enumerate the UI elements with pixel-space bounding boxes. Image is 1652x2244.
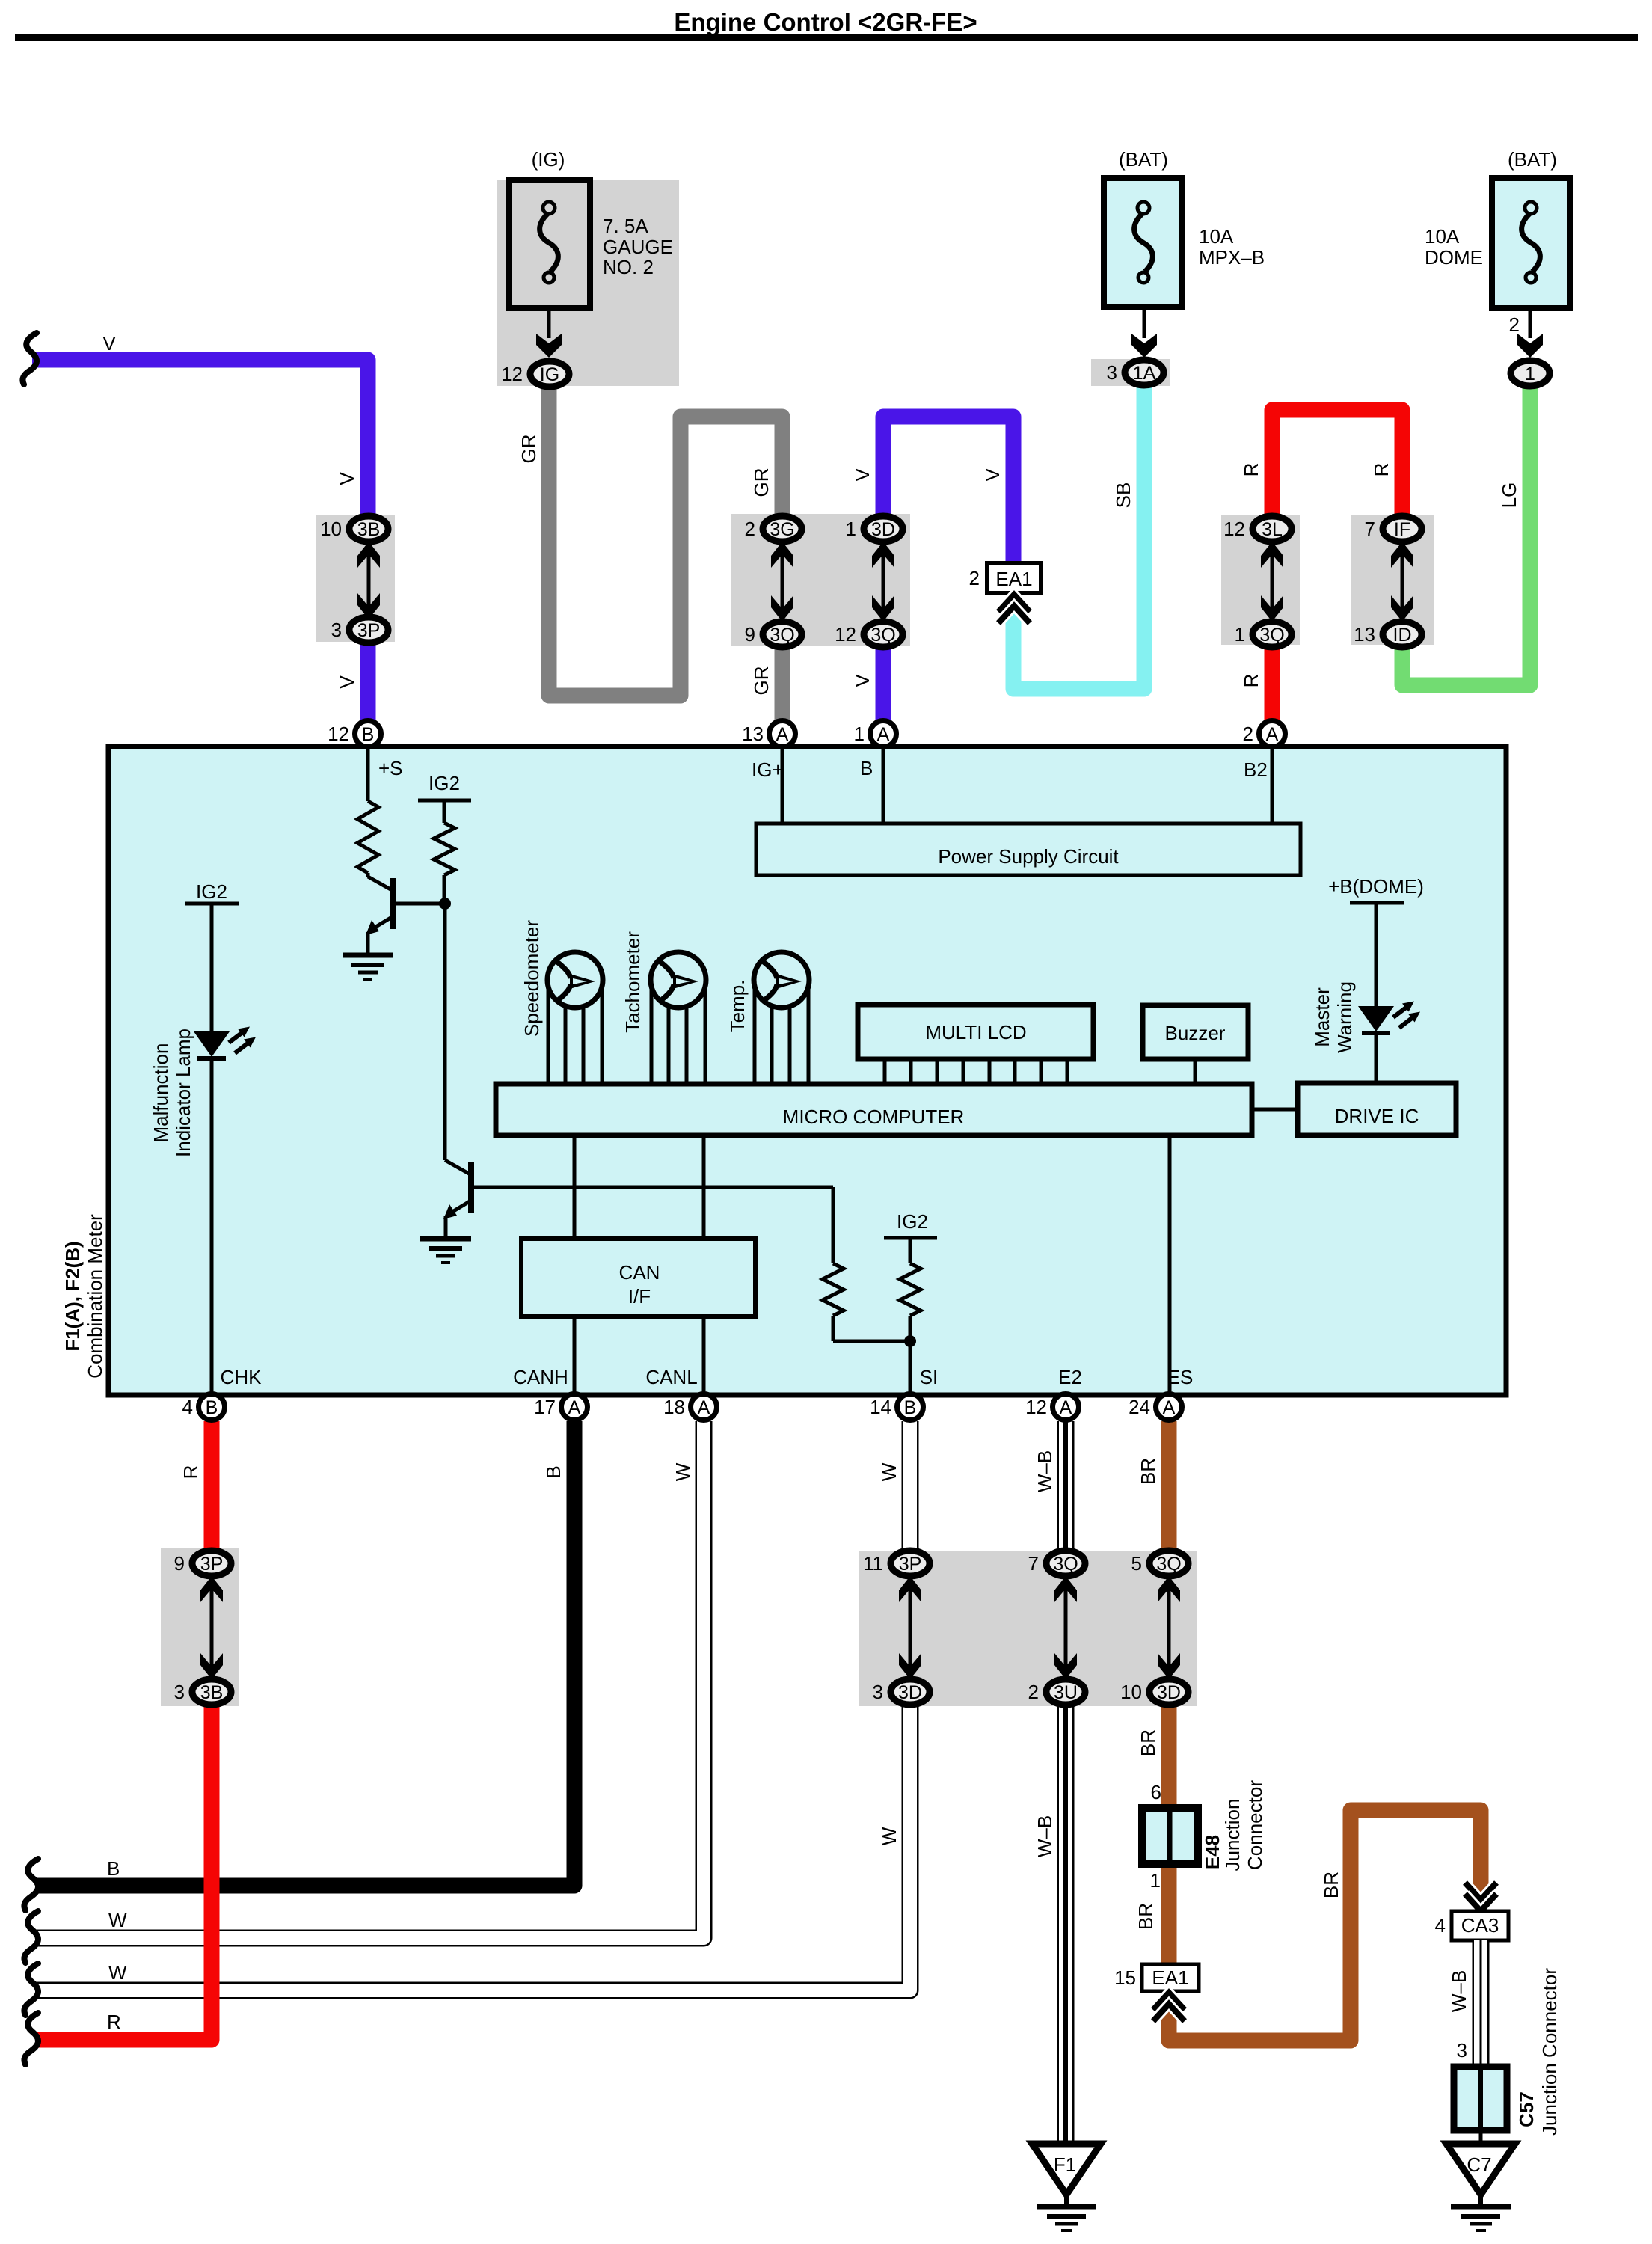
svg-text:24: 24 bbox=[1129, 1396, 1150, 1418]
wire BR from meter pin 24A ES via 3Q/3D to E48 and EA1 bbox=[1169, 1421, 1481, 2041]
gauge temp bbox=[726, 952, 809, 1084]
svg-text:MULTI LCD: MULTI LCD bbox=[925, 1021, 1026, 1043]
svg-text:NO. 2: NO. 2 bbox=[603, 256, 654, 278]
wire W-B from CA3 to C57 bbox=[1473, 1940, 1490, 2067]
power supply circuit box bbox=[756, 824, 1301, 875]
svg-text:B: B bbox=[107, 1857, 120, 1880]
svg-text:Malfunction: Malfunction bbox=[150, 1043, 172, 1143]
svg-text:Warning: Warning bbox=[1333, 981, 1356, 1053]
gauge tachometer bbox=[621, 931, 706, 1084]
ground C7 bbox=[1446, 2144, 1515, 2231]
svg-text:GAUGE: GAUGE bbox=[603, 236, 673, 258]
svg-text:GR: GR bbox=[518, 435, 540, 464]
svg-text:10A: 10A bbox=[1199, 225, 1234, 248]
meter pin 13 A (IG+) bbox=[742, 721, 795, 747]
connector 3P pin 9 bbox=[174, 1551, 231, 1576]
wire SB from fuse MPX-B 1A to EA1 bbox=[1013, 383, 1144, 689]
buzzer box bbox=[1143, 1005, 1248, 1084]
connector 3Q pin 9 bbox=[745, 622, 802, 647]
svg-text:17: 17 bbox=[534, 1396, 556, 1418]
connector 3B pin 10 bbox=[320, 516, 388, 542]
svg-text:12: 12 bbox=[835, 623, 856, 646]
connector pair IF/ID gray background bbox=[1351, 515, 1434, 645]
net +B(DOME) rail bbox=[1328, 875, 1424, 1006]
resistor R-si1 bbox=[823, 1263, 844, 1316]
meter pin 1 A (B) bbox=[854, 721, 897, 747]
connector 1A pin 3 bbox=[1107, 360, 1164, 385]
wires CAN I/F to micro computer bbox=[574, 1135, 704, 1239]
terminal IG pin 12 bbox=[501, 361, 569, 387]
svg-text:IG2: IG2 bbox=[196, 880, 227, 903]
title Engine Control <2GR-FE> bbox=[674, 8, 977, 36]
svg-text:A: A bbox=[1163, 1397, 1176, 1418]
wire B from meter pin 17A CANH to harness break bbox=[36, 1421, 574, 1886]
svg-text:A: A bbox=[568, 1397, 581, 1418]
junction arrow 3Q-3U bbox=[1054, 1576, 1077, 1679]
node junction dot base Q1 bbox=[439, 898, 451, 910]
connector CA3 pin 4 bbox=[1435, 1911, 1508, 1940]
arrow from fuse MPX-B to 1A bbox=[1131, 307, 1157, 358]
svg-text:I/F: I/F bbox=[628, 1285, 651, 1308]
svg-text:EA1: EA1 bbox=[995, 568, 1032, 590]
combination meter box F1(A),F2(B) bbox=[108, 747, 1506, 1395]
svg-text:13: 13 bbox=[742, 723, 764, 745]
pin name labels bottom bbox=[221, 1366, 1194, 1388]
svg-text:W: W bbox=[878, 1827, 900, 1845]
svg-text:4: 4 bbox=[182, 1396, 193, 1418]
junction arrow 3Q-3D bbox=[1158, 1576, 1180, 1679]
connector EA1 pin 15 (bottom) bbox=[1114, 1964, 1199, 1991]
svg-text:W: W bbox=[878, 1462, 900, 1481]
connector 3Q pin 12 bbox=[835, 622, 903, 647]
net IG2 rail MIL bbox=[185, 880, 239, 1031]
meter pin 17 A CANH bbox=[534, 1394, 587, 1420]
svg-text:BR: BR bbox=[1137, 1458, 1159, 1485]
svg-text:W–B: W–B bbox=[1448, 1970, 1470, 2012]
connector 3Q pin 1 bbox=[1235, 622, 1292, 647]
wire R from 3L to IF bbox=[1272, 410, 1402, 516]
wires pins to power supply circuit bbox=[782, 748, 1272, 824]
svg-text:3L: 3L bbox=[1262, 519, 1283, 540]
ground (internal, under Q2) bbox=[420, 1239, 471, 1263]
gauge speedometer bbox=[521, 920, 603, 1084]
svg-text:3G: 3G bbox=[770, 519, 794, 540]
svg-text:IF: IF bbox=[1394, 519, 1410, 540]
svg-text:V: V bbox=[981, 468, 1004, 482]
svg-text:B: B bbox=[860, 757, 873, 779]
svg-text:1: 1 bbox=[846, 518, 856, 540]
junction arrow 3D-3Q bbox=[872, 542, 894, 622]
svg-text:MPX–B: MPX–B bbox=[1199, 246, 1265, 269]
meter pin 4 B CHK bbox=[182, 1394, 225, 1420]
svg-text:ES: ES bbox=[1167, 1366, 1194, 1388]
svg-text:3Q: 3Q bbox=[870, 625, 895, 646]
ground (internal, under Q1) bbox=[343, 955, 393, 979]
svg-text:(IG): (IG) bbox=[532, 148, 565, 171]
svg-text:7. 5A: 7. 5A bbox=[603, 215, 648, 237]
svg-text:V: V bbox=[336, 472, 358, 485]
svg-text:R: R bbox=[107, 2011, 121, 2033]
svg-text:5: 5 bbox=[1131, 1552, 1142, 1575]
svg-text:LG: LG bbox=[1498, 482, 1520, 509]
svg-text:A: A bbox=[776, 724, 789, 745]
arrow from fuse GAUGE NO.2 to IG terminal bbox=[536, 308, 562, 358]
svg-text:V: V bbox=[851, 674, 873, 687]
svg-text:3: 3 bbox=[873, 1681, 883, 1703]
svg-text:3B: 3B bbox=[200, 1682, 224, 1703]
svg-text:W: W bbox=[108, 1961, 127, 1984]
svg-text:CANL: CANL bbox=[645, 1366, 697, 1388]
svg-text:3D: 3D bbox=[898, 1682, 922, 1703]
svg-text:BR: BR bbox=[1320, 1871, 1342, 1898]
svg-text:MICRO COMPUTER: MICRO COMPUTER bbox=[783, 1106, 965, 1128]
junction connector E48 bbox=[1142, 1780, 1266, 1892]
svg-text:R: R bbox=[179, 1465, 202, 1480]
fuse 7.5A GAUGE NO.2 (IG) bbox=[509, 148, 673, 308]
svg-text:14: 14 bbox=[870, 1396, 891, 1418]
wire master warning LED to drive IC bbox=[1375, 1033, 1378, 1083]
connector 3D pin 1 bbox=[846, 516, 903, 542]
svg-text:W–B: W–B bbox=[1034, 1450, 1056, 1492]
wire R from 3Q to meter pin 2A bbox=[1265, 643, 1280, 720]
svg-text:C7: C7 bbox=[1467, 2153, 1491, 2176]
wire W from meter pin 18A CANL to harness break bbox=[36, 1421, 704, 1938]
ground F1 bbox=[1032, 2144, 1101, 2231]
svg-text:1A: 1A bbox=[1133, 363, 1156, 384]
svg-text:12: 12 bbox=[328, 723, 349, 745]
svg-text:B: B bbox=[206, 1397, 218, 1418]
svg-text:A: A bbox=[1060, 1397, 1072, 1418]
svg-text:Engine Control <2GR-FE>: Engine Control <2GR-FE> bbox=[674, 8, 977, 36]
fuse 10A DOME (BAT) bbox=[1425, 148, 1570, 308]
svg-text:3: 3 bbox=[1107, 361, 1117, 384]
svg-text:IG: IG bbox=[540, 364, 559, 385]
svg-text:12: 12 bbox=[501, 363, 523, 385]
svg-text:3Q: 3Q bbox=[1156, 1554, 1181, 1575]
transistor Q2 bbox=[443, 1160, 833, 1239]
svg-text:R: R bbox=[1240, 463, 1262, 477]
wire C57 to ground C7 bbox=[1479, 2130, 1483, 2145]
svg-text:3B: 3B bbox=[357, 519, 381, 540]
svg-text:2: 2 bbox=[745, 518, 755, 540]
svg-text:3: 3 bbox=[331, 619, 342, 641]
svg-text:4: 4 bbox=[1435, 1914, 1446, 1937]
svg-text:F1(A), F2(B): F1(A), F2(B) bbox=[61, 1241, 84, 1351]
connector 3G pin 2 bbox=[745, 516, 802, 542]
svg-text:(BAT): (BAT) bbox=[1508, 148, 1557, 171]
svg-text:Power Supply Circuit: Power Supply Circuit bbox=[938, 845, 1119, 868]
meter pin 14 B SI bbox=[870, 1394, 923, 1420]
transistor Q1 bbox=[366, 873, 445, 955]
svg-text:V: V bbox=[851, 468, 873, 482]
arrow from fuse DOME to terminal 1 bbox=[1509, 308, 1543, 358]
svg-text:2: 2 bbox=[969, 567, 980, 589]
chevron into EA1 bbox=[998, 595, 1030, 623]
svg-text:13: 13 bbox=[1354, 623, 1375, 646]
svg-text:B: B bbox=[904, 1397, 917, 1418]
junction arrow IF-ID bbox=[1391, 542, 1413, 622]
connector 3L pin 12 bbox=[1223, 516, 1292, 542]
svg-text:3Q: 3Q bbox=[770, 625, 794, 646]
svg-text:3P: 3P bbox=[200, 1554, 224, 1575]
wire MIL to CHK pin bbox=[210, 1059, 214, 1393]
svg-text:CA3: CA3 bbox=[1461, 1914, 1499, 1937]
chevron into CA3 bbox=[1465, 1883, 1496, 1911]
wire GR from fuse IG to 3G and meter pin 13A bbox=[549, 387, 782, 720]
connector IF pin 7 bbox=[1365, 516, 1422, 542]
svg-text:Junction: Junction bbox=[1221, 1799, 1244, 1871]
connector pair 3L/3Q gray background bbox=[1221, 515, 1300, 645]
svg-text:3U: 3U bbox=[1054, 1682, 1078, 1703]
svg-text:V: V bbox=[336, 675, 358, 689]
junction arrow 3L-3Q bbox=[1261, 542, 1283, 622]
svg-text:3: 3 bbox=[174, 1681, 185, 1703]
fuse GAUGE NO.2 gray background bbox=[497, 180, 679, 386]
terminal 1 bbox=[1511, 361, 1550, 386]
svg-text:IG+: IG+ bbox=[752, 758, 784, 781]
svg-text:BR: BR bbox=[1137, 1729, 1159, 1756]
connector 3D pin 3 bbox=[873, 1679, 930, 1705]
connector 3B pin 3 bbox=[174, 1679, 231, 1705]
svg-text:2: 2 bbox=[1243, 723, 1253, 745]
svg-text:Buzzer: Buzzer bbox=[1165, 1022, 1226, 1044]
svg-text:DOME: DOME bbox=[1425, 246, 1483, 269]
drive IC box bbox=[1298, 1083, 1456, 1135]
svg-text:9: 9 bbox=[174, 1552, 185, 1575]
node junction dot SI bbox=[904, 1335, 916, 1347]
connector block 3P/3D 3Q/3U 3Q/3D gray background bbox=[859, 1551, 1197, 1706]
svg-text:7: 7 bbox=[1365, 518, 1375, 540]
svg-text:3Q: 3Q bbox=[1259, 625, 1284, 646]
chevron into EA1 bottom bbox=[1153, 1993, 1185, 2021]
LED master warning bbox=[1358, 1002, 1420, 1034]
connector pair 3P/3B gray background (bottom left) bbox=[161, 1548, 239, 1706]
connector ID pin 13 bbox=[1354, 622, 1422, 647]
svg-text:A: A bbox=[1266, 724, 1279, 745]
wire micro computer to ES pin bbox=[1168, 1135, 1172, 1393]
svg-text:3: 3 bbox=[1457, 2039, 1467, 2061]
svg-text:BR: BR bbox=[1134, 1903, 1157, 1930]
connector 1A pin 3 gray background bbox=[1091, 359, 1170, 386]
svg-text:15: 15 bbox=[1114, 1966, 1136, 1989]
wire W-B from meter pin 12A E2 via 3Q/3U to ground F1 bbox=[1057, 1421, 1075, 2142]
svg-text:Connector: Connector bbox=[1244, 1780, 1266, 1870]
svg-text:10: 10 bbox=[1120, 1681, 1142, 1703]
svg-text:9: 9 bbox=[745, 623, 755, 646]
pin name labels top bbox=[378, 757, 1268, 781]
svg-text:W–B: W–B bbox=[1034, 1815, 1056, 1857]
svg-text:E2: E2 bbox=[1058, 1366, 1082, 1388]
svg-text:3Q: 3Q bbox=[1053, 1554, 1078, 1575]
svg-text:C57: C57 bbox=[1515, 2091, 1538, 2127]
svg-text:1: 1 bbox=[1525, 364, 1535, 384]
svg-text:+S: +S bbox=[378, 757, 403, 779]
title rule bbox=[15, 34, 1638, 41]
svg-text:+B(DOME): +B(DOME) bbox=[1328, 875, 1424, 898]
connector 3P pin 3 bbox=[331, 617, 388, 643]
meter pin 24 A ES bbox=[1129, 1394, 1182, 1420]
svg-text:12: 12 bbox=[1025, 1396, 1047, 1418]
connector 3P pin 11 bbox=[863, 1551, 930, 1576]
svg-text:1: 1 bbox=[1150, 1869, 1161, 1892]
svg-text:F1: F1 bbox=[1054, 2153, 1076, 2176]
svg-text:SB: SB bbox=[1112, 482, 1134, 509]
wire V from harness break to connector 3B pin10 and meter pin 12B bbox=[32, 360, 368, 720]
junction arrow 3G-3Q bbox=[771, 542, 793, 622]
net IG2 rail 1 and resistor bbox=[418, 772, 471, 904]
junction arrow 3B-3P bbox=[357, 542, 380, 619]
wire from junction to Q2 collector bbox=[443, 904, 447, 1160]
connector pair 3B/3P gray background bbox=[316, 515, 395, 642]
svg-text:Combination Meter: Combination Meter bbox=[84, 1214, 106, 1379]
svg-text:GR: GR bbox=[750, 666, 773, 696]
label malfunction indicator lamp bbox=[150, 1028, 194, 1157]
label master warning bbox=[1311, 981, 1356, 1053]
svg-text:3P: 3P bbox=[357, 620, 381, 641]
junction arrow 3P-3D bbox=[899, 1576, 921, 1679]
connector EA1 pin 2 (top) bbox=[969, 563, 1041, 593]
svg-text:V: V bbox=[102, 332, 116, 355]
connector 3U pin 2 bbox=[1028, 1679, 1085, 1705]
wire V from EA1 to 3D and meter pin 1A bbox=[883, 417, 1013, 720]
svg-text:R: R bbox=[1240, 674, 1262, 688]
svg-text:12: 12 bbox=[1223, 518, 1245, 540]
connector block 3G/3Q and 3D/3Q gray background bbox=[731, 514, 910, 646]
svg-text:11: 11 bbox=[863, 1552, 883, 1575]
wire micro computer to drive IC bbox=[1252, 1108, 1298, 1112]
svg-text:B: B bbox=[362, 724, 375, 745]
svg-text:1: 1 bbox=[854, 723, 865, 745]
svg-text:6: 6 bbox=[1151, 1781, 1161, 1803]
meter pin 12 B (+S) bbox=[328, 721, 381, 747]
net IG2 rail 2 and resistor R-si2 bbox=[884, 1210, 937, 1393]
svg-text:GR: GR bbox=[750, 468, 773, 497]
meter pin 2 A (B2) bbox=[1243, 721, 1286, 747]
connector 3Q pin 7 bbox=[1028, 1551, 1085, 1576]
svg-text:Temp.: Temp. bbox=[726, 980, 749, 1033]
svg-text:CAN: CAN bbox=[619, 1261, 660, 1284]
junction connector C57 bbox=[1454, 1968, 1561, 2136]
svg-text:B: B bbox=[542, 1465, 565, 1478]
wire R from meter pin 4B CHK via 3P/3B to harness break bbox=[36, 1421, 212, 2040]
svg-text:DRIVE IC: DRIVE IC bbox=[1335, 1105, 1419, 1127]
svg-text:10A: 10A bbox=[1425, 225, 1460, 248]
svg-text:(BAT): (BAT) bbox=[1119, 148, 1168, 171]
svg-text:7: 7 bbox=[1028, 1552, 1039, 1575]
svg-text:18: 18 bbox=[663, 1396, 685, 1418]
svg-text:3D: 3D bbox=[871, 519, 895, 540]
svg-text:Master: Master bbox=[1311, 987, 1333, 1047]
svg-text:Speedometer: Speedometer bbox=[521, 920, 543, 1037]
fuse 10A MPX-B (BAT) bbox=[1104, 148, 1265, 307]
svg-text:B2: B2 bbox=[1244, 758, 1268, 781]
wires CAN I/F to CANH/CANL pins bbox=[574, 1316, 704, 1393]
svg-text:A: A bbox=[698, 1397, 710, 1418]
svg-text:2: 2 bbox=[1028, 1681, 1039, 1703]
meter pin 18 A CANL bbox=[663, 1394, 716, 1420]
LED malfunction indicator lamp bbox=[194, 1027, 256, 1059]
svg-text:CHK: CHK bbox=[221, 1366, 262, 1388]
connector 3D pin 10 bbox=[1120, 1679, 1188, 1705]
MULTI LCD box bbox=[858, 1005, 1093, 1084]
junction arrow 3P-3B bbox=[200, 1576, 223, 1679]
svg-text:W: W bbox=[672, 1462, 694, 1481]
svg-text:Indicator Lamp: Indicator Lamp bbox=[172, 1028, 194, 1157]
svg-text:10: 10 bbox=[320, 518, 342, 540]
svg-text:EA1: EA1 bbox=[1152, 1966, 1188, 1989]
svg-text:SI: SI bbox=[920, 1366, 939, 1388]
svg-text:E48: E48 bbox=[1201, 1835, 1223, 1869]
CAN I/F box bbox=[521, 1239, 755, 1316]
svg-text:IG2: IG2 bbox=[897, 1210, 928, 1233]
svg-text:IG2: IG2 bbox=[429, 772, 460, 794]
svg-text:3D: 3D bbox=[1157, 1682, 1181, 1703]
wire Q2 base to pull-up resistor bbox=[823, 1187, 910, 1341]
node +S line and resistor R-s bbox=[357, 748, 378, 873]
svg-text:R: R bbox=[1370, 463, 1392, 477]
svg-text:1: 1 bbox=[1235, 623, 1245, 646]
wire W from meter pin 14B SI via 3P/3D to harness break bbox=[36, 1421, 910, 1990]
svg-text:A: A bbox=[877, 724, 890, 745]
meter pin 12 A E2 bbox=[1025, 1394, 1078, 1420]
svg-text:2: 2 bbox=[1509, 313, 1520, 336]
svg-text:3P: 3P bbox=[899, 1554, 922, 1575]
svg-text:Junction Connector: Junction Connector bbox=[1538, 1968, 1561, 2136]
micro computer box bbox=[496, 1084, 1252, 1135]
svg-text:Tachometer: Tachometer bbox=[621, 931, 644, 1033]
svg-text:CANH: CANH bbox=[513, 1366, 568, 1388]
svg-text:W: W bbox=[108, 1909, 127, 1931]
connector 3Q pin 5 bbox=[1131, 1551, 1188, 1576]
wire LG from fuse DOME to ID bbox=[1402, 383, 1530, 685]
svg-text:ID: ID bbox=[1393, 625, 1412, 646]
